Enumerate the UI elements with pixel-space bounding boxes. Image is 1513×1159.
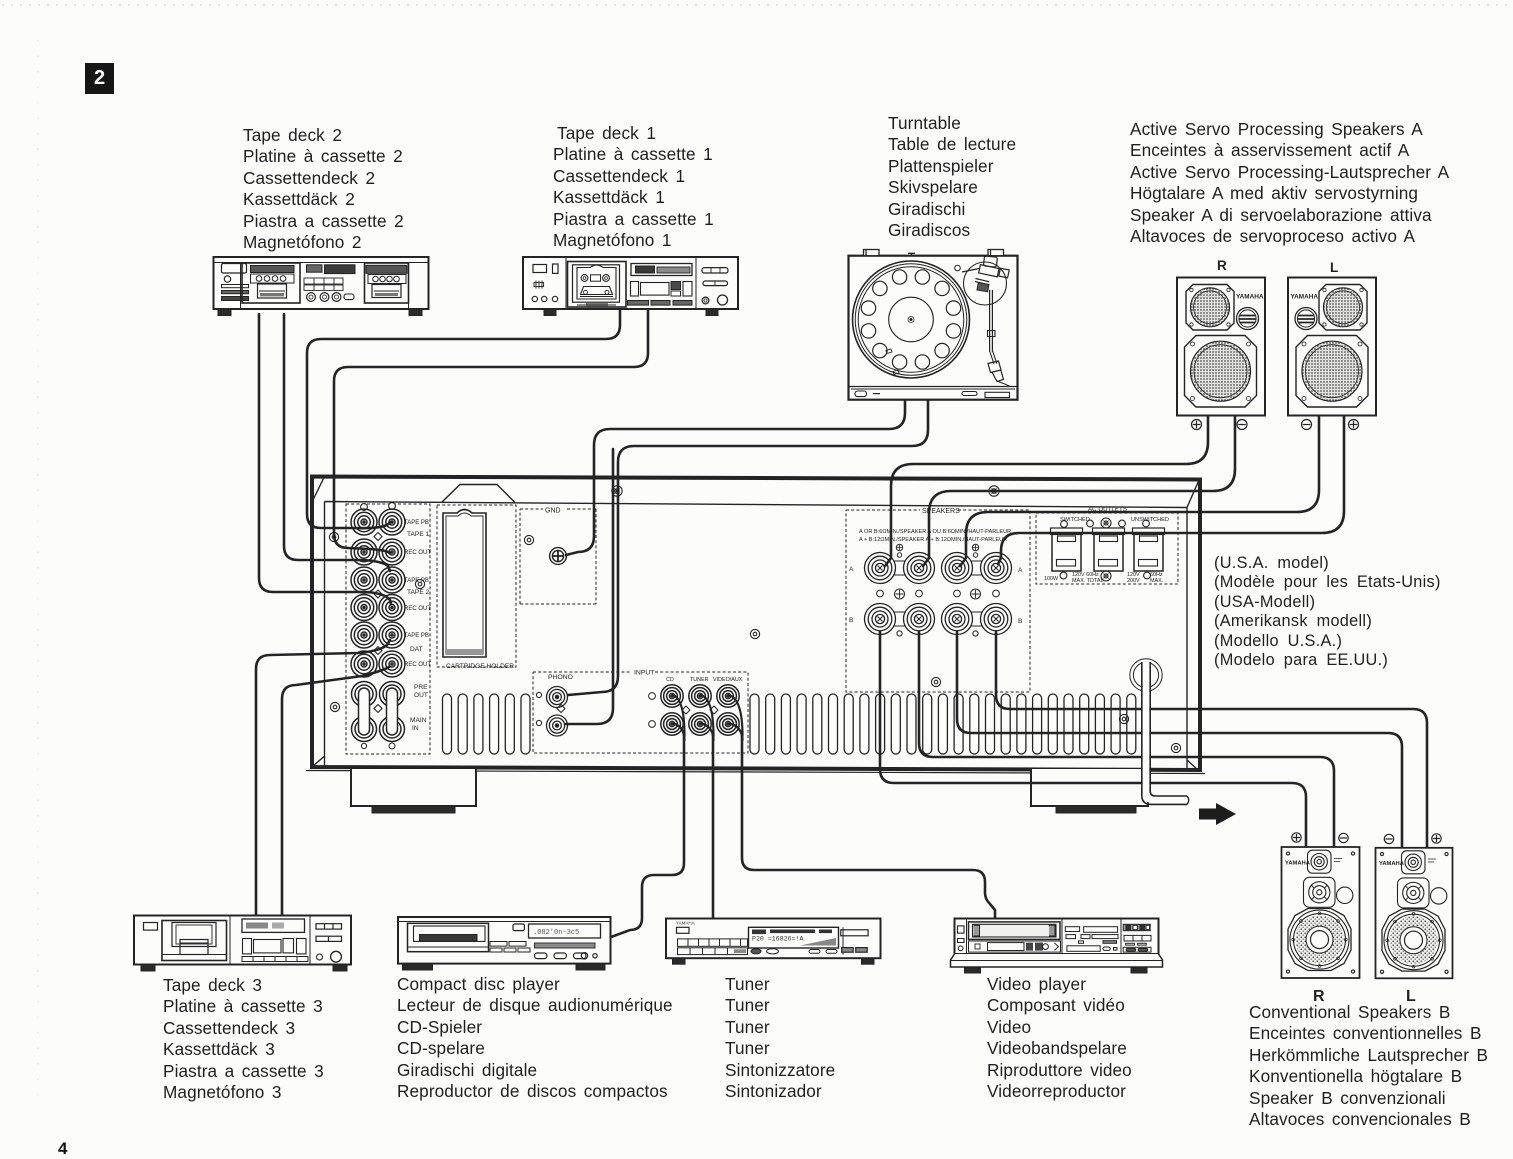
svg-text:PHONO: PHONO — [548, 674, 573, 681]
svg-text:A: A — [849, 566, 854, 573]
svg-text:MAX. TOTAL: MAX. TOTAL — [1072, 578, 1103, 584]
svg-text:CD: CD — [666, 677, 674, 683]
svg-text:.082'0n-3c5: .082'0n-3c5 — [533, 929, 579, 937]
svg-text:OUT: OUT — [414, 692, 428, 699]
svg-text:R: R — [1217, 258, 1227, 273]
svg-text:MAX.: MAX. — [1150, 578, 1163, 584]
svg-text:L: L — [1406, 988, 1416, 1005]
svg-text:A + B:12ΩMIN./SPEAKER A + B:: A + B:12ΩMIN./SPEAKER A + B:12ΩMIN./HAUT… — [859, 537, 1007, 543]
svg-text:MAIN: MAIN — [410, 717, 427, 724]
svg-text:DAT: DAT — [410, 646, 423, 653]
svg-text:200V: 200V — [1127, 578, 1140, 584]
svg-text:B: B — [1018, 618, 1023, 625]
svg-text:L: L — [1330, 260, 1338, 275]
svg-text:YAMAHA: YAMAHA — [1285, 861, 1311, 867]
svg-text:YAMAHA: YAMAHA — [1236, 294, 1264, 301]
svg-text:TAPE 2: TAPE 2 — [407, 589, 430, 596]
svg-text:A OR B:6ΩMIN./SPEAKER A OU B: A OR B:6ΩMIN./SPEAKER A OU B:6ΩMIN./HAUT… — [859, 529, 1011, 535]
svg-text:YAMAHA: YAMAHA — [676, 921, 695, 926]
svg-text:IN: IN — [412, 725, 419, 732]
svg-text:R: R — [1313, 988, 1325, 1005]
svg-text:UNSWITCHED: UNSWITCHED — [1131, 517, 1169, 523]
svg-text:B: B — [849, 617, 854, 624]
svg-text:VIDEO/AUX: VIDEO/AUX — [713, 677, 743, 683]
svg-text:CARTRIDGE HOLDER: CARTRIDGE HOLDER — [446, 663, 514, 670]
svg-text:100W: 100W — [1044, 576, 1059, 582]
svg-text:GND: GND — [545, 508, 561, 515]
svg-text:P20 =16826=!A: P20 =16826=!A — [752, 936, 803, 943]
svg-text:YAMAHA: YAMAHA — [1379, 861, 1405, 867]
svg-text:TAPE 1: TAPE 1 — [407, 531, 430, 538]
svg-text:TUNER: TUNER — [690, 677, 709, 683]
svg-text:YAMAHA: YAMAHA — [1291, 294, 1319, 301]
svg-text:PRE: PRE — [414, 684, 428, 691]
svg-text:REC OUT: REC OUT — [404, 550, 431, 556]
svg-text:SWITCHED: SWITCHED — [1060, 517, 1090, 523]
svg-text:REC OUT: REC OUT — [404, 662, 431, 668]
svg-text:INPUT: INPUT — [634, 670, 654, 677]
svg-text:REC OUT: REC OUT — [404, 606, 431, 612]
svg-text:TAPE PB: TAPE PB — [404, 633, 429, 639]
svg-text:TAPE PB: TAPE PB — [404, 520, 429, 526]
svg-text:A: A — [1018, 567, 1023, 574]
svg-text:TAPE PB: TAPE PB — [404, 578, 429, 584]
